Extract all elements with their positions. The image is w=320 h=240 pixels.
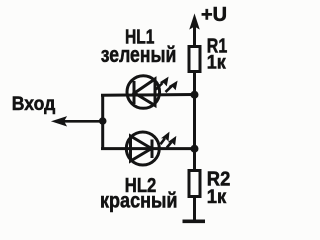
wire: HL1 row horizontal [101, 93, 194, 97]
resistor R2 [189, 171, 200, 197]
svg-text:1к: 1к [207, 187, 227, 208]
svg-text:1к: 1к [207, 52, 226, 73]
input arrow (Вход) [53, 117, 102, 126]
wire: R1 bottom to R2 top (main right vertical) [193, 72, 196, 170]
wire: R2 bottom to ground [193, 197, 196, 221]
resistor R1 [189, 47, 200, 72]
LED HL1 (green), cathode left [127, 76, 160, 109]
node A: HL1/R1 junction dot [191, 91, 199, 99]
wire: left vertical (input bus) [101, 94, 104, 150]
wire: +U arrow stem down to R1 [193, 25, 196, 46]
svg-text:Вход: Вход [12, 93, 56, 115]
svg-text:красный: красный [100, 188, 178, 212]
+U supply arrowhead [190, 15, 199, 29]
LED HL2 (red), cathode right [126, 132, 159, 165]
HL1 light arrows [156, 78, 177, 93]
HL2 light arrows [161, 133, 176, 148]
ground [183, 220, 206, 224]
svg-text:+U: +U [201, 4, 227, 26]
wire: HL2 row horizontal [101, 147, 194, 150]
node B: HL2/R2 junction dot [191, 145, 199, 153]
svg-text:зеленый: зеленый [101, 42, 177, 67]
node: input junction dot [99, 117, 107, 125]
